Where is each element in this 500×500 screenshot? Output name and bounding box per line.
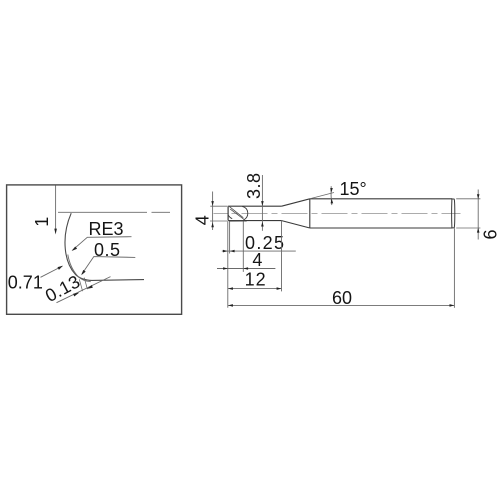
dia 4 arrow top (211, 201, 214, 206)
svg-text:15°: 15° (340, 179, 367, 199)
dimension 4 line (217, 268, 275, 270)
leader RE3 (73, 237, 132, 251)
second extension for 0.25 (229, 222, 231, 254)
dia 4 dimension line (212, 192, 214, 231)
flute edge upper (229, 207, 243, 218)
profile curve RE3 (detail view) (65, 213, 92, 280)
detail view box (7, 185, 182, 314)
leader 0.71 (41, 266, 63, 277)
taper-shank junction (309, 199, 311, 228)
dia 4 arrow bottom (211, 222, 214, 227)
svg-text:3.8: 3.8 (244, 173, 264, 199)
taper top outline (282, 199, 310, 206)
svg-text:0.71: 0.71 (8, 272, 43, 292)
dimension 60 line (228, 304, 454, 306)
tool head top outline (228, 205, 282, 207)
bottom flat line (detail view) (92, 279, 144, 282)
leader 0.71 arrow (58, 266, 63, 270)
dia 6 extension bottom (456, 227, 480, 229)
dimension 12 arrow left (228, 287, 233, 290)
dimension 60 arrow left (228, 304, 233, 307)
dia 6 dimension line (477, 190, 479, 240)
dimension 0.13 arrow right (87, 285, 93, 289)
flute tail (244, 220, 247, 221)
dia 4 extension bottom (210, 220, 228, 222)
taper bottom outline (282, 221, 310, 228)
svg-text:60: 60 (332, 288, 352, 308)
svg-text:6: 6 (481, 229, 500, 239)
svg-text:RE3: RE3 (89, 219, 124, 239)
extension stub B for 0.13 (84, 278, 87, 290)
offset curve 0.13 band (detail view) (68, 255, 91, 282)
head bottom edge thick (229, 220, 246, 222)
extension for 4 length (242, 221, 244, 272)
extension for 60 length (453, 228, 455, 307)
shank top outline (310, 198, 452, 200)
leader RE3 arrow (72, 247, 78, 252)
dimension 4 arrow left (223, 267, 228, 270)
main tip extension line (227, 221, 229, 307)
svg-text:1: 1 (32, 217, 52, 227)
dimension 60 arrow right (450, 304, 455, 307)
dimension 12 line (228, 288, 282, 290)
dia 3.8 dimension line (261, 175, 263, 231)
shank bottom outline (310, 227, 452, 229)
taper extension line for 15 deg (310, 193, 334, 199)
dia 3.8 arrow top (261, 201, 264, 206)
svg-text:0.25: 0.25 (245, 233, 284, 253)
leader 0.5 (82, 257, 135, 274)
tool head bottom outline (228, 220, 282, 222)
svg-text:4: 4 (193, 215, 213, 225)
svg-text:0.5: 0.5 (94, 240, 120, 260)
dimension 0.13 line (57, 277, 111, 303)
leader 0.5 arrow (81, 270, 86, 275)
angle 15 deg arrow bottom (331, 199, 334, 204)
tip gash (228, 215, 232, 218)
dimension 0.25 line (222, 250, 296, 252)
dia 6 extension top (456, 198, 480, 200)
dia 3.8 arrow bottom (261, 222, 264, 227)
extension for 12 length (281, 221, 283, 292)
dia 6 arrow bottom (477, 228, 480, 233)
dia 6 arrow top (477, 194, 480, 199)
angle 15 deg arrow top (330, 188, 333, 193)
surface line (detail view) (58, 211, 170, 213)
extension stub A for 0.13 (79, 279, 82, 291)
flute corner bulge (242, 206, 248, 219)
svg-text:0.13: 0.13 (42, 271, 83, 306)
svg-text:12: 12 (245, 270, 266, 290)
tool tip face (227, 207, 229, 221)
dimension 0.13 arrow left (73, 293, 79, 297)
centerline of tool (214, 212, 461, 214)
dia 4 extension top (210, 205, 227, 207)
dimension 0.25 arrow left (223, 250, 228, 253)
dimension 1 line (detail view) (55, 186, 57, 230)
dimension 0.25 arrow right (230, 250, 235, 253)
angle 15 deg leader (330, 186, 333, 205)
dimension 12 arrow right (277, 287, 282, 290)
flute edge lower (230, 209, 244, 220)
shank end face (452, 199, 455, 228)
dimension 4 arrow right (243, 267, 248, 270)
svg-text:4: 4 (252, 250, 262, 270)
dimension 1 arrow (54, 229, 57, 235)
